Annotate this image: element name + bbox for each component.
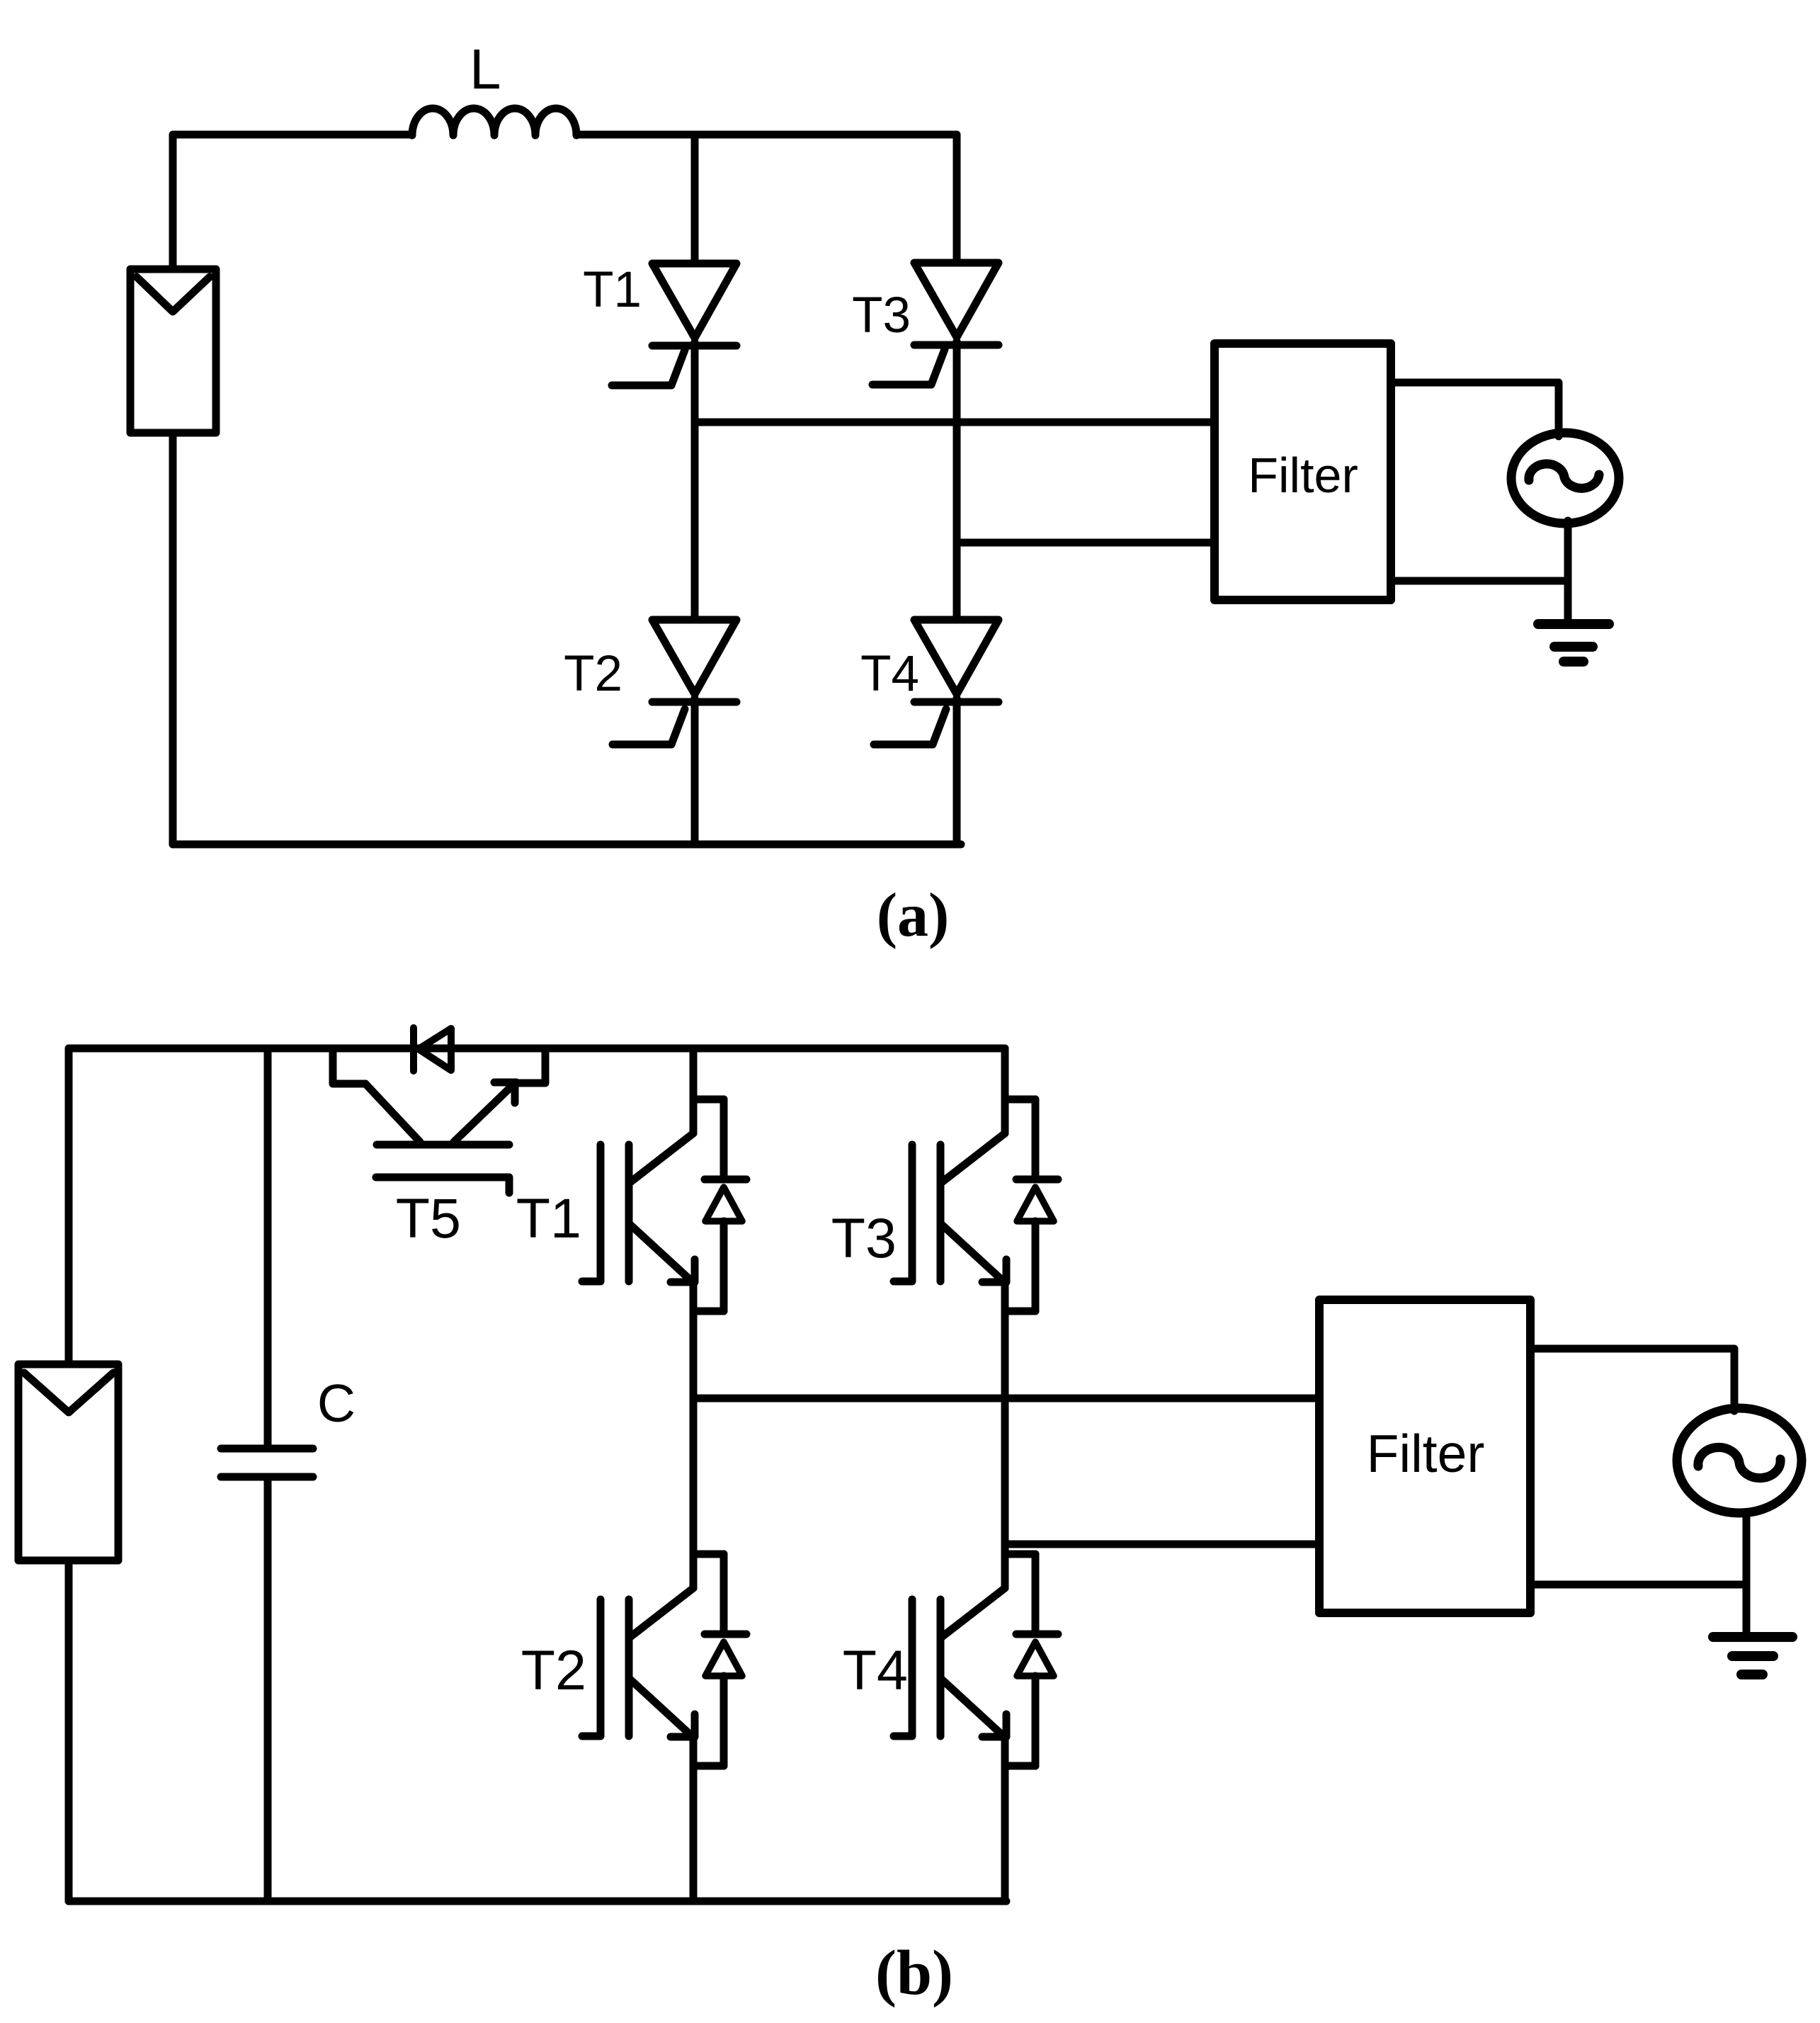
svg-text:L: L [470,38,501,101]
svg-text:T4: T4 [843,1638,908,1701]
filter box (a) [1215,344,1391,600]
svg-text:T1: T1 [583,262,642,318]
wire: T3 emitter to T4 collector [1001,1281,1009,1588]
T3 freewheel diode [1016,1099,1058,1311]
svg-text:(a): (a) [877,881,950,950]
svg-text:Filter: Filter [1248,448,1358,503]
T3 gate bar [894,1145,912,1281]
T4 emitter diagonal [942,1679,1003,1735]
inductor L [412,108,576,135]
filter box (b) [1319,1300,1530,1613]
wire: T3 cathode to T4 anode [953,341,961,620]
thyristor T4 [874,620,999,744]
T1 emitter stub [693,1308,724,1315]
wire: T1 emitter to T2 collector [690,1281,698,1588]
IGBT T4 (b) [894,1554,1058,1766]
T5 emitter stub [515,1048,545,1083]
diode D5 [414,1028,451,1071]
T4 emitter stub [1005,1762,1035,1770]
wire: filter lower output (b) [1530,1581,1746,1589]
transistor T5 (RB-IGBT with series diode) [333,1028,545,1193]
svg-text:T5: T5 [396,1186,461,1249]
T3 emitter stub [1005,1308,1035,1315]
T1 gate bar [582,1145,601,1281]
svg-text:Filter: Filter [1367,1424,1485,1483]
T2 freewheel diode [705,1554,746,1766]
T2 emitter arrow [671,1714,695,1737]
T5 collector diagonal [365,1084,420,1142]
T1 collector diagonal [630,1133,693,1182]
T4 collector diagonal [942,1588,1005,1637]
T2 emitter diagonal [630,1679,691,1735]
T5 plate bar [377,1141,509,1149]
wire: bridge midpoint 1 to filter (a) [695,419,1215,426]
T2 diode top stub [693,1551,724,1558]
T2 gate bar [582,1599,601,1736]
wire: top-left vertical (b) [69,1048,1005,1364]
PV module (a) [130,269,216,433]
wire: bottom horizontal (a) [173,841,961,849]
IGBT T2 (b) [582,1554,746,1766]
wire: AC source bottom to ground (b) [1743,1513,1751,1637]
wire: T1 anode leg [691,135,699,263]
T1 collector leg [690,1048,698,1133]
T1 diode top stub [693,1096,724,1104]
T5 emitter diagonal [454,1085,513,1142]
T4 gate bar [894,1599,912,1736]
wire: bridge midpoint 1 to filter (b) [693,1395,1319,1402]
T2 emitter stub [693,1762,724,1770]
T5 gate bar [376,1177,509,1193]
T3 diode top stub [1005,1096,1035,1104]
wire: bridge midpoint 2 to filter (b) [1005,1541,1319,1548]
svg-text:T4: T4 [860,646,919,702]
IGBT T1 (b) [582,1048,746,1311]
wire: T2 cathode to bottom wire [691,698,699,844]
T1 emitter diagonal [630,1225,691,1281]
svg-text:T2: T2 [564,646,622,702]
AC source (a) [1511,433,1619,523]
T3 emitter diagonal [942,1225,1003,1281]
wire: AC source bottom to ground (a) [1564,521,1572,624]
T5 collector stub [333,1048,365,1084]
IGBT T3 (b) [894,1048,1058,1311]
ground (b) [1713,1637,1792,1674]
T3 collector leg [1001,1048,1009,1133]
T1 freewheel diode [705,1099,746,1311]
T4 body bar [937,1599,945,1736]
thyristor T1 [612,263,736,385]
svg-text:T3: T3 [831,1206,897,1269]
svg-text:T1: T1 [516,1186,581,1249]
T4 emitter arrow [982,1714,1006,1737]
T4 diode top stub [1005,1551,1035,1558]
wire: bottom horizontal (b) [69,1898,1006,1905]
T1 body bar [625,1145,633,1281]
wire: filter upper output to AC source (b) [1530,1349,1734,1411]
wire: T1 cathode to T2 anode [691,342,699,620]
wire: top-left (PV anode up and across to inductor) [173,135,412,269]
thyristor T3 [872,263,999,385]
wire: left vertical below PV (a) [169,433,177,844]
AC source (b) [1677,1408,1802,1513]
PV module (b) [18,1364,118,1560]
wire: T2 emitter to bottom wire [690,1735,698,1901]
wire: T4 emitter to bottom wire [1001,1735,1009,1901]
svg-text:T3: T3 [852,288,911,344]
T3 emitter arrow [982,1259,1006,1282]
svg-text:C: C [317,1373,356,1433]
T2 body bar [625,1599,633,1736]
wire: filter lower output (a) [1391,577,1568,585]
wire: T4 cathode to bottom wire [953,698,961,844]
T3 collector diagonal [942,1133,1005,1182]
wire: capacitor branch lower [264,1477,272,1901]
T4 freewheel diode [1016,1554,1058,1766]
capacitor C [221,1449,313,1477]
wire: top horizontal from inductor to T3 corner [576,135,957,263]
thyristor T2 [613,620,736,744]
wire: capacitor branch upper [264,1048,272,1449]
svg-text:T2: T2 [521,1638,586,1701]
T2 collector diagonal [630,1588,693,1637]
wire: bridge midpoint 2 to filter (a) [957,539,1215,547]
T1 emitter arrow [671,1259,695,1282]
T3 body bar [937,1145,945,1281]
wire: filter upper output to AC source (a) [1391,382,1559,436]
svg-text:(b): (b) [875,1938,953,2008]
T5 emitter arrow [494,1082,516,1103]
ground (a) [1538,624,1609,662]
wire: left vertical below PV (b) [65,1560,73,1901]
